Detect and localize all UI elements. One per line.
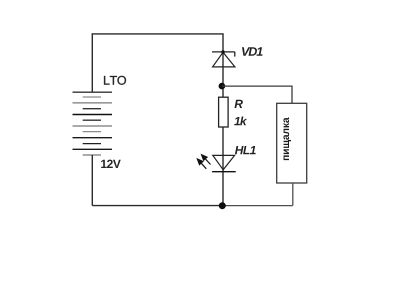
wire bottom horizontal right segment to buzzer lead: [223, 205, 293, 207]
wire left vertical lower: [91, 155, 93, 206]
wire bottom horizontal: [92, 205, 223, 207]
wire branch junction to buzzer top lead: [222, 86, 292, 103]
label 12V: [101, 160, 121, 168]
label VD1: [242, 47, 263, 56]
wire buzzer bottom lead: [292, 183, 294, 206]
label HL1: [235, 146, 256, 154]
label R: [235, 100, 243, 108]
node dot at diode apex: [221, 50, 224, 53]
node junction dot top: [219, 83, 226, 90]
zener diode VD1 triangle: [213, 52, 235, 67]
wire middle column vertical: [222, 33, 224, 205]
zener diode VD1 cathode bar: [212, 51, 235, 53]
LED HL1 emission arrow 2: [196, 158, 206, 169]
LED HL1 cathode bar: [212, 171, 236, 173]
wire left vertical upper: [91, 33, 93, 92]
wire top horizontal: [92, 33, 223, 35]
LED HL1 triangle: [213, 155, 235, 169]
battery GB1 cell plates: [73, 92, 113, 155]
node junction dot bottom: [219, 202, 226, 209]
label buzzer text: [283, 117, 291, 160]
label LTO: [104, 76, 126, 85]
label 1k: [234, 117, 247, 126]
resistor R body: [219, 97, 229, 127]
LED HL1 emission arrow 1: [201, 154, 211, 165]
buzzer box: [277, 103, 307, 183]
zener diode VD1 cathode hook: [234, 52, 236, 57]
